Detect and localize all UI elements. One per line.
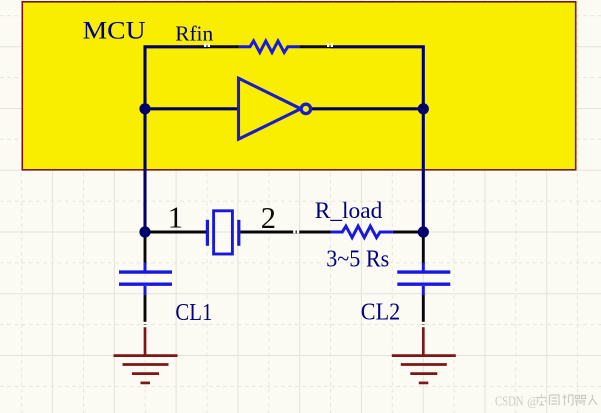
wire: crystal pin2 to R_load: [240, 231, 331, 234]
grid speck over right ground wire: [422, 322, 425, 327]
svg-text:CL1: CL1: [175, 299, 212, 326]
node junction dot right-crystal: [418, 226, 429, 237]
watermark CSDN: [495, 393, 539, 409]
svg-text:Rfin: Rfin: [175, 22, 213, 46]
wire: CL2 to ground: [422, 295, 425, 325]
node junction dot right-mid: [418, 103, 429, 114]
wire: inverter output: [311, 107, 424, 110]
svg-text:3~5 Rs: 3~5 Rs: [326, 246, 389, 273]
grid speck over top wire at x=328: [327, 43, 333, 47]
svg-text:CSDN: CSDN: [495, 394, 524, 409]
watermark CJK glyph shapes: [537, 395, 598, 406]
wire: left net corner, top run + left vertical: [145, 47, 208, 232]
inverter output bubble: [301, 104, 310, 113]
crystal Y1: [207, 211, 238, 254]
svg-text:MCU: MCU: [83, 16, 146, 45]
wire: black segment right of Rfin: [300, 45, 331, 48]
grid speck over left ground wire: [143, 322, 146, 327]
resistor Rfin: [238, 41, 300, 53]
wire: black segment left of Rfin: [207, 45, 239, 48]
wire: left junction down to CL1: [144, 233, 147, 264]
capacitor CL1: [119, 263, 172, 296]
ground (left): [114, 326, 178, 383]
grid speck over crystal row wire: [293, 230, 299, 234]
inverter U1 triangle: [239, 78, 301, 139]
wire: R_load to right vertical: [393, 231, 423, 234]
svg-text:CL2: CL2: [361, 299, 401, 326]
svg-text:R_load: R_load: [315, 198, 383, 223]
node junction dot left-crystal: [139, 226, 150, 237]
wire: crystal pin1: [145, 231, 206, 234]
svg-text:2: 2: [261, 201, 276, 235]
resistor R_load: [331, 226, 393, 238]
grid speck over top wire at x=204: [204, 43, 210, 47]
wire: right net corner, top run + right vertical: [331, 47, 424, 232]
MCU sheet-symbol yellow block: [22, 2, 575, 170]
wire: right junction down to CL2: [422, 233, 425, 264]
capacitor CL2: [397, 263, 450, 296]
ground (right): [392, 326, 456, 383]
wire: CL1 to ground: [144, 295, 147, 325]
svg-text:1: 1: [168, 200, 183, 234]
node junction dot left-mid: [139, 103, 150, 114]
wire: inverter input: [145, 107, 238, 110]
